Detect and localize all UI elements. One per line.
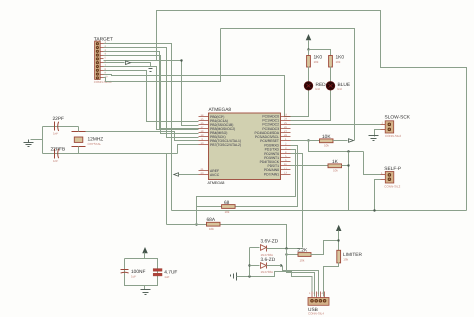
- svg-text:TARGET: TARGET: [94, 37, 113, 43]
- resistor R7 2.2K: [297, 248, 311, 263]
- wire PD1 to mid net: [197, 150, 296, 225]
- wire decoupling box: [125, 259, 158, 290]
- ground decoupling: [141, 290, 151, 295]
- node 2.2K branch junction: [285, 253, 287, 255]
- U1 left pin stubs: [199, 117, 209, 175]
- ground crystal: [24, 140, 34, 147]
- node D1 branch junction: [285, 247, 287, 249]
- wire 1K right riser: [348, 152, 350, 211]
- wire target p9 to PC0 over chip: [104, 75, 291, 117]
- wire XTAL2 to PB7: [178, 145, 199, 154]
- node vcc led split: [307, 48, 309, 50]
- wire 68A right to zener net: [221, 225, 287, 249]
- node 1K right junction: [347, 164, 349, 166]
- wire crystal left loop: [31, 127, 178, 154]
- svg-text:PD7/AIN1: PD7/AIN1: [264, 172, 279, 176]
- U1 right pin names: [255, 115, 280, 177]
- wire RED led to PC0: [291, 91, 309, 117]
- wire AVCC terminal: [179, 174, 199, 176]
- resistor R1 1K0 red: [307, 55, 323, 67]
- wire target p5 reset to PB2 and loop: [104, 61, 199, 126]
- svg-text:10k: 10k: [343, 257, 348, 261]
- resistor R8 LIMITER: [337, 250, 363, 263]
- wire PD2 to zener D1: [291, 154, 303, 248]
- zener D1 3.6V-ZD: [250, 238, 303, 257]
- wire 68A feeder vertical: [166, 154, 168, 225]
- svg-text:1nF: 1nF: [53, 159, 58, 163]
- svg-text:1uF: 1uF: [131, 275, 136, 279]
- svg-text:13: 13: [284, 171, 287, 174]
- wire 68A left: [167, 224, 207, 226]
- svg-text:ATMEGA8: ATMEGA8: [209, 107, 232, 113]
- wire 68 left link: [197, 199, 222, 207]
- wire target p4 to PB4: [104, 56, 199, 134]
- U1 left pin numbers: [201, 114, 204, 175]
- wire target p1 to bottom rail: [104, 44, 172, 211]
- wire target p8 to PB1: [104, 71, 199, 122]
- connector J4 USB: [308, 292, 329, 316]
- capacitor C4 4.7UF: [153, 269, 177, 279]
- resistor R4 1K: [328, 159, 342, 173]
- svg-text:CONN-SIL4: CONN-SIL4: [308, 312, 324, 316]
- capacitor C2 22PFB: [51, 146, 66, 162]
- wire R2 to BLUE led: [330, 67, 332, 82]
- svg-text:SELF-P: SELF-P: [384, 166, 401, 172]
- resistor R3 10K: [320, 134, 334, 148]
- resistor R5 68: [222, 200, 236, 214]
- connector J1 TARGET: [94, 37, 113, 84]
- wire target p2 to PB1: [104, 48, 199, 138]
- node 1K tee: [347, 150, 349, 152]
- wire R1 to RED led: [308, 67, 310, 82]
- resistor R2 1K0 blue: [329, 55, 345, 67]
- svg-text:22PFB: 22PFB: [51, 146, 66, 152]
- svg-text:ATMEGA8: ATMEGA8: [208, 181, 225, 185]
- power arrow decoupling: [143, 248, 148, 259]
- wire zener left vertical: [249, 248, 251, 277]
- svg-text:3.6-ZD: 3.6-ZD: [261, 257, 276, 263]
- resistor R6 68A: [207, 217, 221, 231]
- svg-text:CONN-SIL2: CONN-SIL2: [385, 134, 401, 138]
- wire PD5 to 1K: [291, 165, 329, 167]
- connector J2 SLOW-SCK: [381, 114, 411, 138]
- wire 2.2K to vcc node: [311, 241, 339, 255]
- wire big reset loop top: [157, 11, 467, 211]
- svg-text:1: 1: [309, 292, 311, 295]
- wire target p7 to PB5: [104, 67, 199, 130]
- node reset junction: [180, 59, 182, 61]
- svg-text:10k: 10k: [336, 60, 341, 64]
- svg-text:10k: 10k: [324, 144, 329, 148]
- wire 1K to riser: [342, 165, 349, 167]
- svg-text:CRYSTAL: CRYSTAL: [88, 142, 102, 146]
- power vcc arrow leds: [306, 35, 311, 50]
- svg-text:3: 3: [318, 292, 320, 295]
- wire ground to usb pin1: [237, 272, 313, 292]
- svg-text:led: led: [338, 87, 342, 91]
- wire 10K to vcc terminal: [333, 140, 348, 142]
- U1 left pin names: [210, 115, 241, 177]
- LED D3 RED: [304, 82, 326, 91]
- node vcc limiter junction: [337, 239, 339, 241]
- node zener D2 left junction: [248, 264, 250, 266]
- ground small near target: [147, 67, 155, 72]
- LED D4 BLUE: [326, 82, 350, 91]
- svg-text:PB7(TOSC2/XTAL2): PB7(TOSC2/XTAL2): [210, 143, 241, 147]
- node zener gnd junction: [248, 275, 250, 277]
- terminal arrow AVCC: [174, 173, 179, 176]
- svg-text:led: led: [316, 87, 320, 91]
- terminal arrow 10K: [349, 139, 354, 143]
- svg-text:5: 5: [105, 56, 107, 59]
- svg-text:1K: 1K: [332, 159, 339, 165]
- svg-text:1: 1: [382, 122, 384, 125]
- crystal X1 12MHZ: [72, 132, 104, 147]
- node 68A left junction: [195, 223, 197, 225]
- svg-text:1uF: 1uF: [164, 275, 169, 279]
- U1 right pin stubs: [281, 117, 291, 175]
- wire reset loop bottom rail: [172, 210, 467, 212]
- terminal arrow near target: [126, 61, 131, 65]
- wire target p10 vcc rail riser: [104, 29, 221, 82]
- svg-text:10k: 10k: [333, 169, 338, 173]
- wire limiter to usb pin4: [324, 263, 339, 297]
- wire PC6 to 10K: [291, 140, 320, 142]
- svg-text:10k: 10k: [300, 258, 305, 262]
- wire 68 right to PD0: [236, 146, 298, 207]
- svg-text:2: 2: [314, 292, 316, 295]
- U1 right pin numbers: [284, 114, 287, 175]
- wire XTAL1 to PB6: [86, 132, 199, 141]
- wire SLOW-SCK pin2 to ground: [375, 130, 381, 137]
- ground SLOW-SCK: [369, 136, 379, 141]
- op-amp U1 ATMEGA8 body: [208, 107, 281, 185]
- wire target p3 to PB3: [104, 52, 200, 129]
- wire vcc top rail: [221, 29, 355, 141]
- wire 2.2K left link: [287, 254, 299, 256]
- svg-text:SLOW-SCK: SLOW-SCK: [385, 114, 411, 120]
- wire SELF-P pin2 to bottom rail: [375, 180, 381, 211]
- wire crystal top stub: [78, 127, 80, 132]
- svg-text:10k: 10k: [209, 227, 214, 231]
- wire PC6 net to self jumper: [309, 141, 381, 175]
- svg-text:1N4738A: 1N4738A: [261, 253, 274, 257]
- svg-text:AVCC: AVCC: [210, 173, 220, 177]
- wire vcc to led resistors: [309, 50, 331, 56]
- wire D- riser to usb pin2: [287, 249, 315, 297]
- svg-text:10k: 10k: [225, 210, 230, 214]
- svg-text:68A: 68A: [207, 217, 216, 223]
- svg-text:1nF: 1nF: [53, 132, 58, 136]
- svg-text:CONN-SIL2: CONN-SIL2: [384, 185, 400, 189]
- svg-text:10K: 10K: [322, 134, 331, 140]
- connector J3 SELF-P: [381, 166, 402, 189]
- wire D2 to usb pin3: [283, 266, 319, 297]
- ground usb area: [231, 273, 237, 281]
- wire BLUE led to PC1: [291, 91, 331, 121]
- svg-text:2.2K: 2.2K: [297, 248, 308, 254]
- node PC6 junction: [307, 139, 309, 141]
- svg-text:3.6V-ZD: 3.6V-ZD: [261, 238, 279, 244]
- node SELF-P rail junction: [373, 209, 375, 211]
- capacitor C1 22PF: [53, 116, 65, 135]
- svg-text:22PF: 22PF: [53, 116, 65, 122]
- wire target p6 to terminal: [104, 63, 151, 67]
- svg-text:68: 68: [224, 200, 230, 206]
- node zener D2 right junction: [280, 264, 282, 266]
- svg-text:PC6/RESET: PC6/RESET: [260, 139, 279, 143]
- svg-text:10k: 10k: [314, 60, 319, 64]
- capacitor C3 100NF: [121, 269, 146, 279]
- svg-text:1N4738A: 1N4738A: [261, 270, 274, 274]
- power vcc arrow usb: [336, 226, 341, 251]
- wire crystal bottom stub: [78, 147, 80, 154]
- zener D2 3.6-ZD: [250, 257, 282, 274]
- wire PC2 to SLOW-SCK: [291, 124, 381, 126]
